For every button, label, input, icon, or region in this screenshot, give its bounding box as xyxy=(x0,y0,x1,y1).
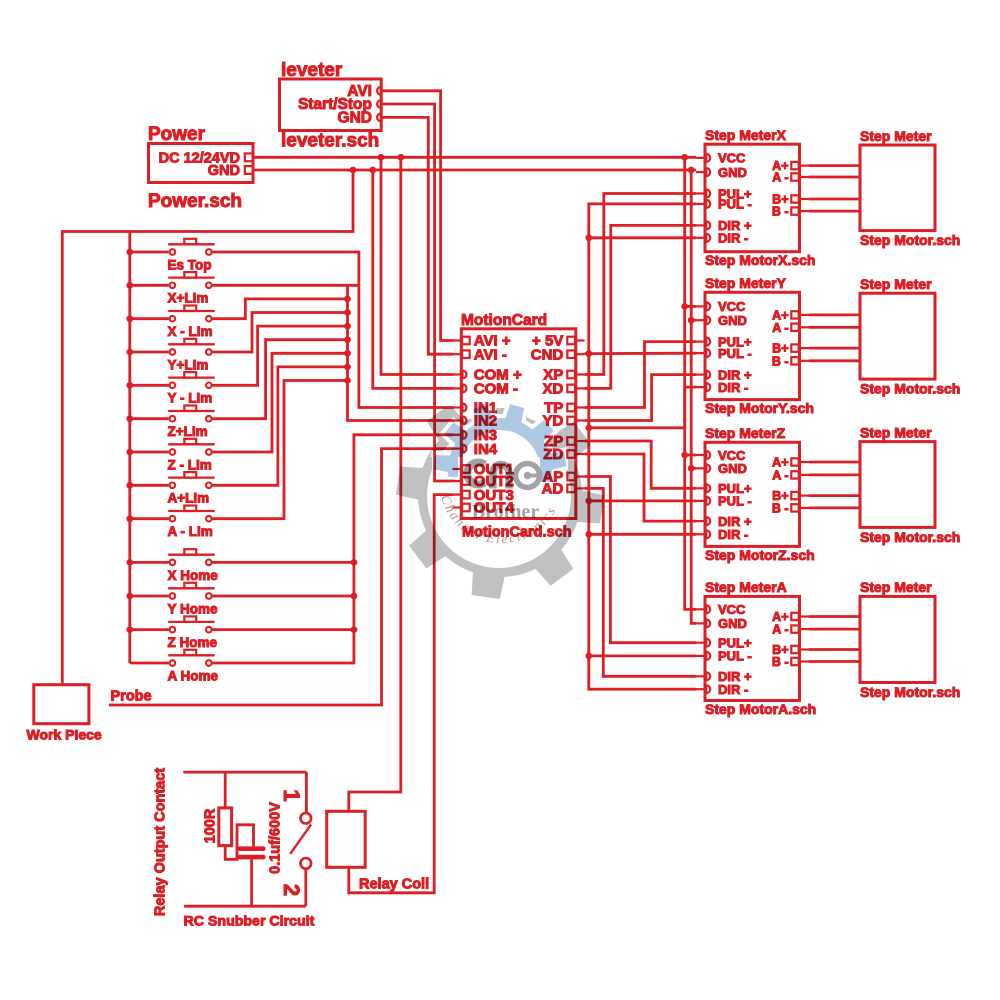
svg-text:PUL -: PUL - xyxy=(718,649,752,664)
svg-text:Step MotorX.sch: Step MotorX.sch xyxy=(705,252,815,268)
svg-text:A -: A - xyxy=(772,469,788,483)
svg-text:GND: GND xyxy=(718,165,747,180)
svg-text:PUL -: PUL - xyxy=(718,197,752,212)
svg-text:Step MeterA: Step MeterA xyxy=(705,579,787,595)
svg-text:GND: GND xyxy=(718,616,747,631)
svg-text:A -: A - xyxy=(772,171,788,185)
svg-text:CND: CND xyxy=(531,346,564,363)
svg-text:Step Meter: Step Meter xyxy=(860,424,932,440)
svg-text:PUL -: PUL - xyxy=(718,494,752,509)
svg-text:Step Meter: Step Meter xyxy=(860,579,932,595)
svg-text:B -: B - xyxy=(772,502,789,516)
svg-text:Y+LIm: Y+LIm xyxy=(168,357,209,372)
svg-text:Step Meter: Step Meter xyxy=(860,128,932,144)
svg-text:Step MeterY: Step MeterY xyxy=(705,275,787,291)
svg-text:YD: YD xyxy=(542,413,563,430)
svg-text:GND: GND xyxy=(208,163,240,179)
svg-text:X+LIm: X+LIm xyxy=(168,291,209,306)
svg-text:VCC: VCC xyxy=(718,151,746,166)
svg-text:Power.sch: Power.sch xyxy=(148,191,242,212)
svg-text:DIR -: DIR - xyxy=(718,527,748,542)
svg-text:A+: A+ xyxy=(772,456,788,470)
svg-text:Power: Power xyxy=(148,124,206,145)
svg-text:VCC: VCC xyxy=(718,602,746,617)
svg-text:PUL -: PUL - xyxy=(718,346,752,361)
svg-text:Step Motor.sch: Step Motor.sch xyxy=(860,232,960,248)
svg-text:Step MotorY.sch: Step MotorY.sch xyxy=(705,400,814,416)
svg-text:X - LIm: X - LIm xyxy=(168,324,213,339)
svg-text:Step MeterZ: Step MeterZ xyxy=(705,425,786,441)
svg-text:B -: B - xyxy=(772,655,789,669)
svg-text:Relay Output Contact: Relay Output Contact xyxy=(153,768,169,916)
svg-text:OUT4: OUT4 xyxy=(474,500,515,517)
svg-text:GND: GND xyxy=(718,313,747,328)
svg-text:leveter.sch: leveter.sch xyxy=(281,131,379,152)
svg-text:ZD: ZD xyxy=(543,446,563,463)
svg-text:MotionCard: MotionCard xyxy=(461,312,547,329)
svg-text:Work PIece: Work PIece xyxy=(27,727,102,743)
svg-text:Relay Coll: Relay Coll xyxy=(359,877,429,893)
svg-text:X Home: X Home xyxy=(168,568,219,583)
svg-text:B -: B - xyxy=(772,205,789,219)
svg-text:DIR -: DIR - xyxy=(718,231,748,246)
svg-text:Step Motor.sch: Step Motor.sch xyxy=(860,684,960,700)
svg-text:MotionCard.sch: MotionCard.sch xyxy=(462,525,572,541)
svg-text:Z - LIm: Z - LIm xyxy=(168,457,212,472)
svg-text:Step MotorZ.sch: Step MotorZ.sch xyxy=(705,547,815,563)
svg-text:DIR -: DIR - xyxy=(718,682,748,697)
svg-text:Z Home: Z Home xyxy=(168,635,218,650)
svg-text:RC Snubber Circuit: RC Snubber Circuit xyxy=(184,914,315,930)
svg-text:Y - LIm: Y - LIm xyxy=(168,391,213,406)
svg-text:DIR -: DIR - xyxy=(718,380,748,395)
svg-text:GND: GND xyxy=(718,461,747,476)
svg-text:A+LIm: A+LIm xyxy=(168,491,210,506)
svg-text:Step MotorA.sch: Step MotorA.sch xyxy=(705,701,816,717)
svg-text:Z+LIm: Z+LIm xyxy=(168,424,208,439)
svg-text:XD: XD xyxy=(542,381,563,398)
svg-text:Probe: Probe xyxy=(111,689,152,705)
svg-text:A -: A - xyxy=(772,623,788,637)
svg-text:AD: AD xyxy=(542,481,564,498)
svg-text:B -: B - xyxy=(772,354,789,368)
svg-text:Step Meter: Step Meter xyxy=(860,276,932,292)
svg-text:Step MeterX: Step MeterX xyxy=(705,127,787,143)
svg-text:VCC: VCC xyxy=(718,299,746,314)
svg-text:Es Top: Es Top xyxy=(168,257,212,272)
svg-text:A Home: A Home xyxy=(168,668,219,683)
svg-text:0.1uf/600V: 0.1uf/600V xyxy=(268,802,284,874)
svg-text:GND: GND xyxy=(338,110,372,127)
svg-text:AVI -: AVI - xyxy=(474,346,507,363)
svg-text:2: 2 xyxy=(279,884,304,896)
svg-text:Step Motor.sch: Step Motor.sch xyxy=(860,381,960,397)
svg-text:COM -: COM - xyxy=(474,381,518,398)
svg-text:A - LIm: A - LIm xyxy=(168,524,213,539)
svg-text:100R: 100R xyxy=(203,808,219,843)
svg-text:A -: A - xyxy=(772,321,788,335)
svg-text:Y Home: Y Home xyxy=(168,601,219,616)
svg-text:Step Motor.sch: Step Motor.sch xyxy=(860,529,960,545)
svg-text:1: 1 xyxy=(279,789,304,801)
svg-text:IN4: IN4 xyxy=(474,441,498,458)
